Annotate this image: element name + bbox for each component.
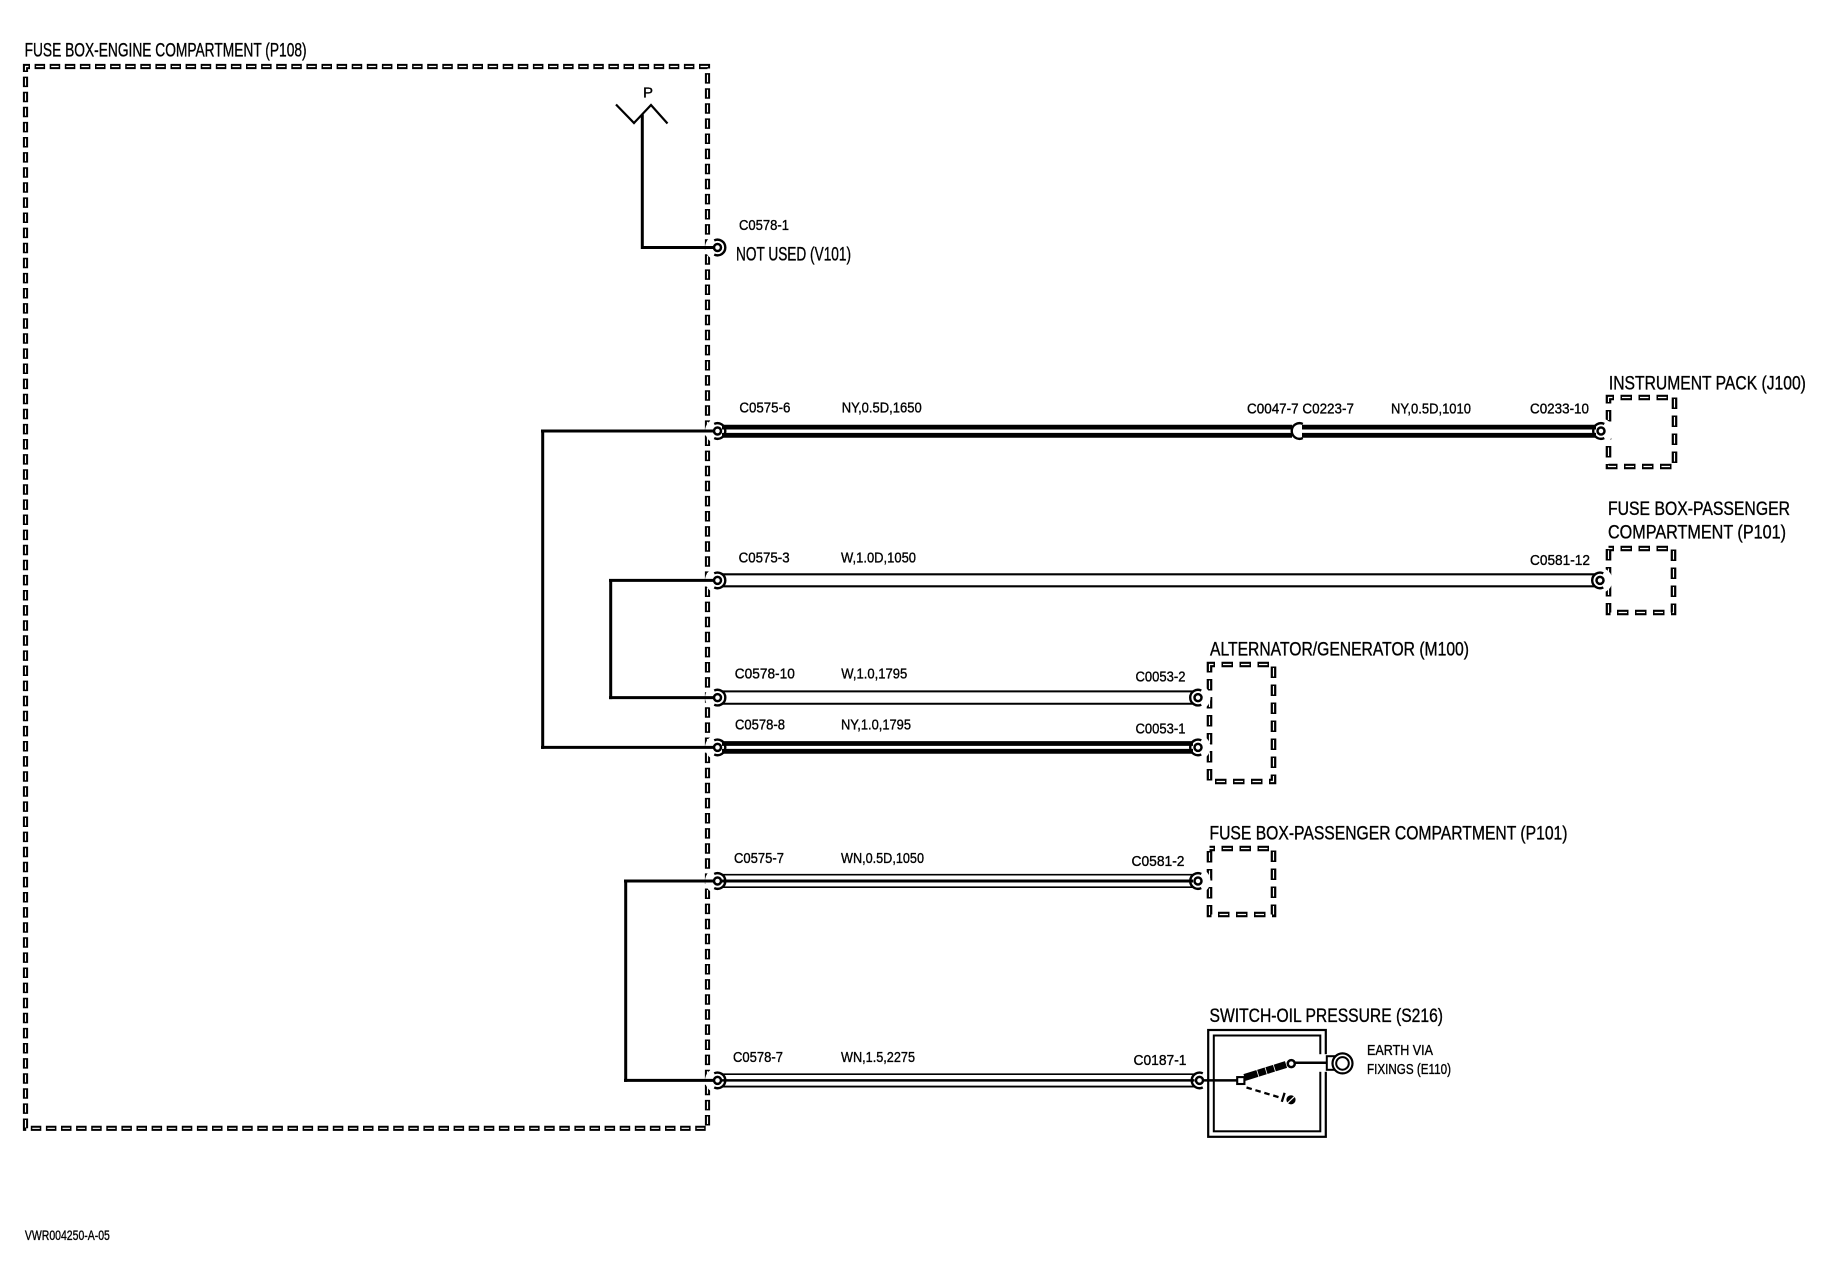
svg-text:FIXINGS (E110): FIXINGS (E110)	[1367, 1061, 1451, 1078]
svg-text:W,1.0,1795: W,1.0,1795	[841, 666, 907, 683]
svg-text:EARTH VIA: EARTH VIA	[1367, 1042, 1433, 1059]
svg-text:C0187-1: C0187-1	[1134, 1052, 1187, 1069]
svg-text:C0053-2: C0053-2	[1136, 669, 1186, 686]
svg-text:SWITCH-OIL PRESSURE (S216): SWITCH-OIL PRESSURE (S216)	[1210, 1006, 1444, 1027]
svg-text:WN,0.5D,1050: WN,0.5D,1050	[841, 850, 924, 867]
svg-text:C0578-1: C0578-1	[739, 217, 789, 234]
svg-text:C0578-8: C0578-8	[735, 716, 785, 733]
svg-text:C0575-6: C0575-6	[739, 400, 790, 417]
svg-text:NY,0.5D,1650: NY,0.5D,1650	[842, 400, 922, 417]
svg-text:P: P	[643, 85, 653, 102]
svg-text:W,1.0D,1050: W,1.0D,1050	[841, 549, 916, 566]
svg-text:C0578-7: C0578-7	[733, 1049, 783, 1066]
svg-text:ALTERNATOR/GENERATOR (M100): ALTERNATOR/GENERATOR (M100)	[1210, 639, 1469, 660]
svg-text:C0233-10: C0233-10	[1530, 400, 1589, 417]
svg-text:NOT USED (V101): NOT USED (V101)	[736, 244, 851, 265]
svg-text:FUSE BOX-ENGINE COMPARTMENT (P: FUSE BOX-ENGINE COMPARTMENT (P108)	[25, 41, 307, 62]
svg-text:FUSE BOX-PASSENGER COMPARTMENT: FUSE BOX-PASSENGER COMPARTMENT (P101)	[1210, 824, 1568, 845]
svg-text:C0581-12: C0581-12	[1530, 552, 1590, 569]
svg-text:C0053-1: C0053-1	[1136, 721, 1186, 738]
svg-text:INSTRUMENT PACK (J100): INSTRUMENT PACK (J100)	[1609, 374, 1806, 395]
svg-text:WN,1.5,2275: WN,1.5,2275	[841, 1049, 915, 1066]
svg-text:C0575-3: C0575-3	[739, 549, 790, 566]
svg-text:C0575-7: C0575-7	[734, 850, 784, 867]
svg-text:NY,0.5D,1010: NY,0.5D,1010	[1391, 400, 1471, 417]
svg-text:COMPARTMENT (P101): COMPARTMENT (P101)	[1608, 522, 1786, 543]
svg-text:C0581-2: C0581-2	[1132, 853, 1185, 870]
svg-text:C0578-10: C0578-10	[735, 666, 795, 683]
svg-text:FUSE BOX-PASSENGER: FUSE BOX-PASSENGER	[1608, 499, 1790, 520]
svg-text:VWR004250-A-05: VWR004250-A-05	[25, 1227, 110, 1243]
svg-text:C0047-7 C0223-7: C0047-7 C0223-7	[1247, 400, 1354, 417]
svg-text:NY,1.0,1795: NY,1.0,1795	[841, 716, 911, 733]
